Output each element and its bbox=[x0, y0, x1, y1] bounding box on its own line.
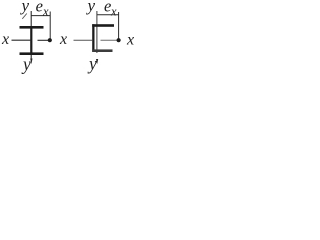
y axis (right figure) bbox=[96, 11, 98, 53]
svg-text:x: x bbox=[59, 31, 67, 48]
svg-text:x: x bbox=[126, 32, 134, 49]
svg-text:y: y bbox=[21, 54, 31, 74]
svg-text:y: y bbox=[20, 0, 30, 15]
channel top flange (right figure) bbox=[92, 24, 114, 27]
x axis left segment (left figure) bbox=[12, 39, 32, 41]
svg-text:y: y bbox=[87, 53, 97, 73]
svg-text:y: y bbox=[86, 0, 96, 15]
svg-text:x: x bbox=[1, 31, 9, 48]
I-section web (left figure) bbox=[30, 26, 32, 55]
shear center dot (left figure) bbox=[48, 38, 52, 42]
I-section bottom flange (left figure) bbox=[20, 52, 44, 55]
shear-center vertical line (right figure) bbox=[118, 12, 120, 40]
dimension line e_x (right figure) bbox=[97, 14, 119, 16]
shear-center vertical line (left figure) bbox=[49, 12, 51, 40]
I-section top flange (left figure) bbox=[20, 26, 44, 29]
y axis arrowhead (left figure) bbox=[30, 59, 32, 65]
stray tail mark of y label bbox=[22, 14, 27, 19]
svg-text:x: x bbox=[42, 4, 49, 18]
svg-text:e: e bbox=[36, 0, 43, 16]
x axis left segment (right figure) bbox=[74, 39, 93, 41]
y axis arrowhead (right figure) bbox=[96, 59, 98, 64]
y axis (left figure) bbox=[30, 11, 32, 59]
svg-text:x: x bbox=[110, 4, 117, 18]
shear center dot (right figure) bbox=[117, 38, 121, 42]
channel bottom flange (right figure) bbox=[92, 49, 112, 52]
x axis right segment (right figure) bbox=[101, 39, 117, 41]
dimension line e_x (left figure) bbox=[31, 15, 50, 17]
channel web (right figure) bbox=[92, 24, 94, 52]
x axis right segment (left figure) bbox=[38, 39, 49, 41]
